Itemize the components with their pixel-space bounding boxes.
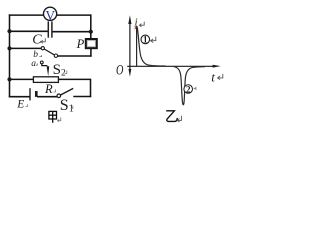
pilcrow after yi <box>177 116 181 122</box>
mini mark after circle 2 <box>193 87 196 90</box>
wire capacitor row left <box>10 30 48 32</box>
curve 2 discharge dip <box>174 67 206 105</box>
pilcrow after t <box>218 74 223 80</box>
pilcrow after jia <box>58 117 61 121</box>
wire switch S2 pivot feed <box>10 47 42 49</box>
wire bottom-left battery feed <box>9 96 30 98</box>
mini mark after E <box>26 104 28 106</box>
label yi (graph tag) <box>166 111 177 122</box>
wire left rail vertical <box>9 14 11 97</box>
resistor R box <box>33 77 58 83</box>
svg-text:2: 2 <box>186 84 191 94</box>
junction node on left rail at R row <box>7 77 11 81</box>
wire right rail P-bottom to b-wire corner <box>90 48 92 57</box>
mini mark after a <box>36 63 37 65</box>
pilcrow after circle 1 <box>151 37 156 43</box>
pilcrow after i <box>139 22 144 27</box>
red peak mark <box>135 26 137 29</box>
marker circle 1 <box>141 35 150 45</box>
wire resistor R row left <box>10 78 34 80</box>
capacitor C plates (also voltmeter leads) <box>48 21 52 37</box>
t axis arrowhead <box>213 65 221 68</box>
switch S1 <box>57 88 73 97</box>
t axis <box>127 65 214 67</box>
wire top-left horizontal <box>9 14 43 16</box>
wire capacitor row right <box>52 31 91 33</box>
wire b contact to right rail <box>58 55 92 57</box>
junction node on right rail at capacitor row <box>89 30 93 34</box>
i axis arrowhead <box>128 15 131 24</box>
wire battery to S1 contact <box>37 96 57 98</box>
svg-text:R: R <box>44 82 53 96</box>
junction node on left rail at S2 row <box>7 46 11 50</box>
svg-text:1: 1 <box>143 35 148 45</box>
junction node on left rail at capacitor row <box>7 29 11 33</box>
wire right rail top (to resistor P) <box>90 14 92 39</box>
mini mark after S2 <box>65 71 67 74</box>
mini mark after b <box>39 55 41 57</box>
mini mark after R <box>53 89 55 92</box>
i axis <box>129 22 131 71</box>
svg-text:V: V <box>45 8 55 23</box>
pilcrow after C <box>41 38 45 43</box>
wire resistor R row right <box>58 78 90 80</box>
wire right lower rail <box>90 79 92 98</box>
svg-text:O: O <box>116 63 124 79</box>
mini mark after S1 <box>71 106 73 109</box>
svg-text:t: t <box>211 70 215 85</box>
wire a contact drop <box>42 64 48 66</box>
switch S2 <box>40 47 57 64</box>
wire bottom right segment under S1 blade <box>73 96 91 98</box>
svg-text:a: a <box>31 59 36 69</box>
svg-text:P: P <box>76 37 85 51</box>
svg-text:C: C <box>32 33 42 48</box>
resistor P box <box>86 39 97 48</box>
curve 1 charging spike <box>137 27 166 66</box>
label jia (circuit tag) <box>49 111 57 122</box>
marker circle 2 <box>184 84 193 94</box>
wire top-right horizontal <box>57 14 92 16</box>
voltmeter U (V) <box>44 7 57 23</box>
wiper arrow onto R <box>47 66 50 76</box>
battery E <box>30 88 36 100</box>
svg-text:E: E <box>16 98 24 110</box>
i axis lower arrowhead <box>129 69 132 77</box>
